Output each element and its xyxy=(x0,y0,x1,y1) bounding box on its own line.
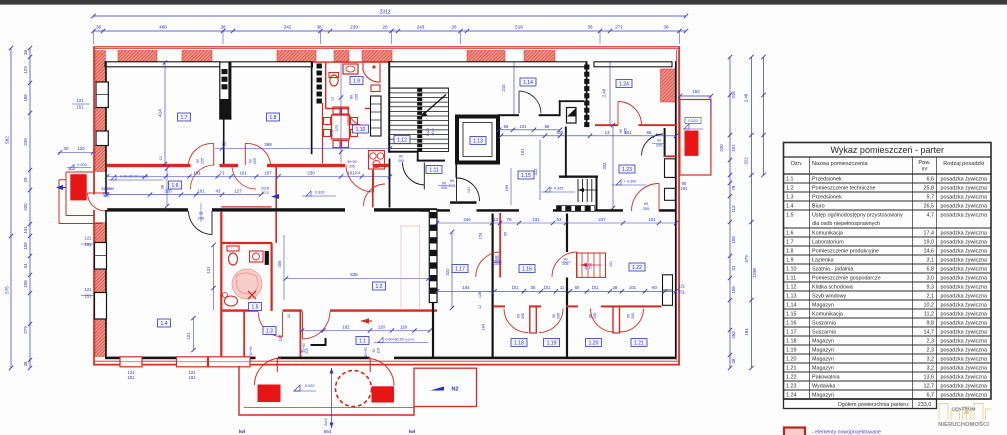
svg-text:1.12: 1.12 xyxy=(786,284,797,290)
svg-text:0.320: 0.320 xyxy=(688,119,698,123)
svg-text:322: 322 xyxy=(533,168,538,176)
svg-text:90: 90 xyxy=(589,314,593,318)
wall between 1.7 and 1.8 (black, windowed top) xyxy=(220,62,229,119)
svg-text:10,2: 10,2 xyxy=(924,302,935,308)
svg-text:101: 101 xyxy=(467,187,471,193)
bathroom 1.5 walls (red) xyxy=(221,242,272,244)
svg-text:322: 322 xyxy=(602,162,607,170)
svg-text:38: 38 xyxy=(663,25,669,30)
wall segment 1.11 (black) xyxy=(450,201,477,204)
svg-text:121: 121 xyxy=(678,284,686,289)
svg-text:43: 43 xyxy=(216,188,221,193)
maneuver cross 1.5 xyxy=(248,291,256,299)
door gap in left wall xyxy=(92,195,107,211)
window frame left 2 xyxy=(96,131,108,146)
svg-text:11,2: 11,2 xyxy=(924,311,934,317)
svg-text:1298: 1298 xyxy=(752,268,757,278)
black fixture 1.5 xyxy=(265,251,269,265)
svg-text:9,8: 9,8 xyxy=(927,320,935,326)
svg-text:184: 184 xyxy=(463,285,471,290)
svg-text:Klatka schodowa: Klatka schodowa xyxy=(812,284,853,290)
wall 1.3/1.1 (red) xyxy=(299,311,301,357)
hatched wall segments top xyxy=(118,51,157,62)
svg-text:272: 272 xyxy=(334,124,339,131)
room label 1.2 xyxy=(373,282,386,290)
svg-text:12: 12 xyxy=(478,305,482,309)
door arc corridor side B xyxy=(232,165,256,189)
svg-text:1.5: 1.5 xyxy=(786,212,794,218)
red lining wall 1.17 xyxy=(499,213,501,278)
svg-text:19,0: 19,0 xyxy=(924,239,935,245)
entry direction arrow (red) xyxy=(361,320,372,322)
legend: new elements (red box) xyxy=(784,428,805,435)
svg-text:1.16: 1.16 xyxy=(786,320,797,326)
svg-text:184: 184 xyxy=(481,323,486,330)
svg-text:1.21: 1.21 xyxy=(786,365,797,371)
top browser bar xyxy=(0,0,1007,5)
svg-text:379: 379 xyxy=(744,255,749,263)
svg-text:90: 90 xyxy=(517,314,521,318)
stairwell wall bottom (black) xyxy=(388,151,418,153)
svg-text:38: 38 xyxy=(316,25,322,30)
svg-text:26: 26 xyxy=(451,25,457,30)
svg-text:lwl: lwl xyxy=(239,429,245,435)
svg-text:posadzka żywiczna: posadzka żywiczna xyxy=(941,383,987,389)
svg-text:Pomieszczenie gospodarcze: Pomieszczenie gospodarcze xyxy=(812,275,881,281)
door arc 1.5 (to 1.3) xyxy=(282,312,284,337)
entrance door arc left (in bottom wall) xyxy=(276,358,278,373)
svg-text:90: 90 xyxy=(627,314,631,318)
svg-text:CENTRUM: CENTRUM xyxy=(952,407,976,413)
svg-text:113: 113 xyxy=(731,205,736,213)
svg-text:Pomieszczenie produkcyjne: Pomieszczenie produkcyjne xyxy=(812,248,879,254)
svg-text:NIERUCHOMOŚCI: NIERUCHOMOŚCI xyxy=(938,421,989,428)
svg-text:101: 101 xyxy=(609,261,613,267)
window 3 in bottom wall (red) xyxy=(209,357,251,367)
svg-text:35: 35 xyxy=(531,285,536,290)
svg-text:101: 101 xyxy=(206,266,211,274)
svg-text:dla osób niepełnosprawnych: dla osób niepełnosprawnych xyxy=(812,221,880,227)
svg-text:26: 26 xyxy=(382,25,388,30)
svg-text:128: 128 xyxy=(478,292,482,298)
dims in 1.1 xyxy=(302,330,430,332)
svg-text:71: 71 xyxy=(220,170,225,175)
staircase direction line xyxy=(421,95,447,118)
svg-text:205: 205 xyxy=(593,313,597,319)
svg-text:1.15: 1.15 xyxy=(786,311,797,317)
bottom wall (black) xyxy=(105,357,256,360)
svg-text:30+90: 30+90 xyxy=(104,187,114,191)
svg-text:2,1: 2,1 xyxy=(927,293,935,299)
svg-text:posadzka żywiczna: posadzka żywiczna xyxy=(941,356,987,362)
staircase 1.12 treads xyxy=(390,87,449,89)
window 2 in bottom wall (red) xyxy=(177,357,208,367)
svg-text:101: 101 xyxy=(520,124,528,129)
level 0.326 xyxy=(306,191,311,196)
dims above 1.14 xyxy=(499,129,560,131)
svg-text:13: 13 xyxy=(605,130,610,135)
corridor dims row 2 xyxy=(107,194,261,196)
svg-text:91: 91 xyxy=(731,265,736,270)
door arc right entry (black) xyxy=(642,134,664,156)
svg-text:1.19: 1.19 xyxy=(547,341,557,347)
svg-text:326: 326 xyxy=(164,188,172,193)
svg-text:196: 196 xyxy=(504,184,509,191)
svg-text:220: 220 xyxy=(23,203,28,211)
svg-text:1.22: 1.22 xyxy=(632,265,642,271)
hatched wall segments left (vertical) xyxy=(95,51,106,83)
svg-text:30+90: 30+90 xyxy=(249,346,253,356)
svg-text:0.00+60.20 n.p.m.: 0.00+60.20 n.p.m. xyxy=(386,338,415,342)
svg-text:118: 118 xyxy=(400,324,407,329)
svg-text:38: 38 xyxy=(220,25,226,30)
bathroom 1.9 bottom wall (red) xyxy=(326,108,348,110)
door arc room 1.7 xyxy=(188,143,214,165)
svg-text:205: 205 xyxy=(349,165,355,169)
shower 1.9 corner xyxy=(363,63,380,82)
room label 1.10 xyxy=(353,125,369,133)
washbasin 1.9 xyxy=(343,64,358,74)
svg-text:Magazyn: Magazyn xyxy=(812,356,834,362)
svg-text:0.020: 0.020 xyxy=(305,384,315,388)
level label corridor xyxy=(111,175,116,180)
outer wall right (red) xyxy=(678,47,680,366)
window 1 in bottom wall (red) xyxy=(120,357,142,367)
room label 1.22 xyxy=(629,263,645,271)
door arc 1.24 xyxy=(618,102,642,126)
wall right of 1.8 (black) xyxy=(311,61,313,154)
vent shaft symbol xyxy=(567,108,577,124)
svg-text:157: 157 xyxy=(278,334,283,342)
svg-text:1.8: 1.8 xyxy=(270,115,277,121)
windowed wall squares right of 1.8 xyxy=(317,64,322,69)
room label 1.18 xyxy=(511,339,527,347)
svg-text:30: 30 xyxy=(64,146,69,151)
svg-text:posadzka żywiczna: posadzka żywiczna xyxy=(941,293,987,299)
svg-text:205: 205 xyxy=(643,206,650,211)
svg-text:posadzka żywiczna: posadzka żywiczna xyxy=(941,275,987,281)
wall top of 1.1/1.3 (red) xyxy=(221,309,258,311)
svg-text:318: 318 xyxy=(731,91,736,99)
svg-text:Szyb windowy: Szyb windowy xyxy=(812,293,846,299)
svg-text:101: 101 xyxy=(355,171,361,175)
svg-text:posadzka żywiczna: posadzka żywiczna xyxy=(941,302,987,308)
svg-text:90: 90 xyxy=(300,349,304,353)
room label 1.13 xyxy=(470,137,486,145)
svg-text:posadzka żywiczna: posadzka żywiczna xyxy=(941,374,987,380)
svg-text:1.9: 1.9 xyxy=(353,79,360,85)
svg-text:26,5: 26,5 xyxy=(924,203,935,209)
svg-text:131: 131 xyxy=(532,217,540,222)
svg-text:posadzka żywiczna: posadzka żywiczna xyxy=(941,365,987,371)
svg-text:6,7: 6,7 xyxy=(927,392,935,398)
door arc corridor side A xyxy=(191,165,215,189)
wall left inner face (black) xyxy=(105,61,107,357)
wall below 1.24 (red) xyxy=(595,124,618,126)
walls of small storerooms (red horizontal) xyxy=(494,305,505,307)
dim labels 1.2 vertical xyxy=(451,232,453,308)
ramp slope symbol (blue) xyxy=(430,387,444,391)
dim 322 vertical xyxy=(539,140,541,200)
svg-text:Przedsionek: Przedsionek xyxy=(812,194,842,200)
svg-text:121: 121 xyxy=(85,287,93,292)
svg-text:120: 120 xyxy=(378,324,386,329)
svg-text:posadzka żywiczna: posadzka żywiczna xyxy=(941,248,987,254)
wall top of bathroom (red) xyxy=(313,61,390,62)
vestibule revolving door (dashed red circle) xyxy=(336,371,372,407)
svg-text:101: 101 xyxy=(592,285,600,290)
svg-text:80: 80 xyxy=(350,95,354,99)
small sink right wall xyxy=(371,85,380,92)
washbasin square 1.5 xyxy=(250,251,264,262)
svg-text:161: 161 xyxy=(681,186,689,191)
svg-text:1.13: 1.13 xyxy=(786,293,797,299)
wall between 1.14 and 1.24 (black) xyxy=(586,61,588,126)
svg-text:25.0: 25.0 xyxy=(589,263,593,270)
svg-text:414: 414 xyxy=(158,109,163,117)
svg-text:3,2: 3,2 xyxy=(927,365,935,371)
door arc left entrance xyxy=(88,193,106,211)
level label 0.003 xyxy=(69,165,74,170)
svg-text:12,7: 12,7 xyxy=(924,383,935,389)
svg-text:182: 182 xyxy=(342,324,350,329)
svg-text:30.3: 30.3 xyxy=(261,191,268,195)
svg-text:1.23: 1.23 xyxy=(786,383,797,389)
svg-text:53: 53 xyxy=(557,217,562,222)
svg-text:1.7: 1.7 xyxy=(786,239,794,245)
svg-text:2,3: 2,3 xyxy=(927,347,935,353)
svg-text:posadzka żywiczna: posadzka żywiczna xyxy=(941,329,987,335)
svg-text:posadzka żywiczna: posadzka żywiczna xyxy=(941,347,987,353)
svg-text:17,4: 17,4 xyxy=(924,230,935,236)
svg-text:Pow.: Pow. xyxy=(918,160,931,166)
svg-text:233,0: 233,0 xyxy=(918,402,932,408)
door arc 1.14 (black) xyxy=(519,91,541,114)
svg-text:205: 205 xyxy=(556,130,564,135)
svg-text:237: 237 xyxy=(598,217,606,222)
svg-text:1.24: 1.24 xyxy=(786,392,797,398)
door arc room 1.2 entry xyxy=(346,165,374,193)
wall 1.1/1.17 lower (black) xyxy=(432,303,434,358)
svg-text:Szatnia - jadalnia: Szatnia - jadalnia xyxy=(812,266,853,272)
svg-text:1.24: 1.24 xyxy=(619,82,629,88)
svg-text:posadzka żywiczna: posadzka żywiczna xyxy=(941,176,987,182)
svg-text:188: 188 xyxy=(23,94,28,102)
washer unit 1.10 (red) xyxy=(369,151,385,170)
svg-text:406: 406 xyxy=(277,260,282,268)
svg-text:1.11: 1.11 xyxy=(429,168,439,174)
svg-text:Magazyn: Magazyn xyxy=(812,338,834,344)
svg-text:1.23: 1.23 xyxy=(622,167,632,173)
svg-text:101: 101 xyxy=(239,170,247,175)
svg-text:1.17: 1.17 xyxy=(455,267,465,273)
svg-text:+ 0.325: + 0.325 xyxy=(551,187,564,191)
svg-text:Wydawka: Wydawka xyxy=(812,383,835,389)
svg-text:29: 29 xyxy=(23,177,28,182)
svg-text:322: 322 xyxy=(445,268,450,276)
door arc stairwell lobby (black) xyxy=(403,163,425,186)
door arc 1.1 xyxy=(303,312,331,340)
svg-text:78: 78 xyxy=(731,185,736,190)
door arcs small storerooms xyxy=(504,309,528,333)
svg-text:181: 181 xyxy=(189,375,197,380)
left porch outline inner (red) xyxy=(65,172,67,216)
svg-text:205: 205 xyxy=(201,158,205,164)
svg-text:38: 38 xyxy=(23,50,28,55)
wall top of rooms (black band) xyxy=(105,62,221,67)
svg-text:1.1: 1.1 xyxy=(359,339,366,345)
window frame right 1 xyxy=(665,159,676,178)
svg-text:+ 0.300: + 0.300 xyxy=(624,180,637,184)
wall 1.10 left (red) xyxy=(322,103,324,164)
svg-text:205: 205 xyxy=(253,158,257,164)
right porch outline (red) xyxy=(680,100,711,176)
svg-text:Nazwa pomieszczenia: Nazwa pomieszczenia xyxy=(812,161,869,167)
svg-text:1.1: 1.1 xyxy=(786,176,794,182)
svg-text:322: 322 xyxy=(744,157,749,165)
svg-text:582: 582 xyxy=(5,136,10,144)
room label 1.24 xyxy=(616,80,632,88)
svg-text:1.7: 1.7 xyxy=(181,115,188,121)
dining table 1.10 xyxy=(332,115,350,139)
corridor steps (black) xyxy=(577,179,579,202)
svg-text:m²: m² xyxy=(922,167,928,173)
corridor bottom wall (black) xyxy=(105,208,188,211)
door arc room 1.4 (black) xyxy=(189,211,213,235)
svg-text:Ustęp ogólnodostępny przystoso: Ustęp ogólnodostępny przystosowany xyxy=(812,212,903,218)
projection lines (light red) xyxy=(400,225,402,310)
svg-text:posadzka żywiczna: posadzka żywiczna xyxy=(941,212,987,218)
svg-text:101: 101 xyxy=(520,148,525,156)
svg-text:181: 181 xyxy=(128,375,136,380)
wall below 1.14 (black) xyxy=(498,114,519,116)
svg-text:90: 90 xyxy=(372,349,376,353)
wall corridor/stair zone (red) xyxy=(372,170,374,208)
svg-text:468: 468 xyxy=(159,25,167,30)
svg-text:205: 205 xyxy=(355,94,359,100)
svg-text:108: 108 xyxy=(731,236,736,244)
dim 2.48 vertical 1.24 xyxy=(609,61,611,125)
dims storerooms xyxy=(437,290,676,292)
grab-bars blob 1.5 xyxy=(232,269,262,299)
room schedule table xyxy=(784,143,992,400)
toilet 1.9 xyxy=(330,75,338,86)
svg-text:11: 11 xyxy=(560,285,565,290)
room label 1.12 xyxy=(394,136,410,144)
svg-text:12: 12 xyxy=(287,314,291,318)
svg-text:230: 230 xyxy=(307,170,315,175)
dim 635 in 1.2 xyxy=(286,278,429,280)
logo centrum nieruchomosci xyxy=(939,404,991,421)
door arc 1.16 (red) xyxy=(552,252,577,277)
dim line inside corridor xyxy=(166,169,168,207)
svg-text:2,3: 2,3 xyxy=(927,338,935,344)
svg-text:90: 90 xyxy=(552,314,556,318)
svg-text:9,3: 9,3 xyxy=(927,284,935,290)
svg-text:65: 65 xyxy=(647,130,652,135)
window frame left 1 xyxy=(96,82,108,108)
svg-text:1.21: 1.21 xyxy=(634,341,644,347)
wall 1.8 left (black) xyxy=(229,62,231,120)
room label 1.5 xyxy=(249,303,262,311)
dim 210 vertical 1.14 xyxy=(513,62,515,114)
svg-text:518: 518 xyxy=(515,25,523,30)
room label 1.16 xyxy=(519,265,535,273)
table total row xyxy=(784,399,937,409)
svg-text:14,7: 14,7 xyxy=(924,329,935,335)
room label 1.6 xyxy=(169,181,182,189)
room label 1.21 xyxy=(631,339,647,347)
dim 414 vertical in 1.7 xyxy=(164,63,166,165)
svg-text:151: 151 xyxy=(85,242,93,247)
vestibule inner wall (black) xyxy=(311,344,327,346)
svg-text:246: 246 xyxy=(463,217,471,222)
svg-text:101: 101 xyxy=(629,285,637,290)
outer wall top (red) xyxy=(93,46,680,47)
svg-text:101: 101 xyxy=(731,144,736,152)
svg-text:368: 368 xyxy=(264,142,272,147)
svg-text:60: 60 xyxy=(652,285,657,290)
level 0.300 xyxy=(616,180,621,185)
window frame right 3 xyxy=(663,275,673,306)
svg-text:151: 151 xyxy=(85,293,93,298)
svg-text:121: 121 xyxy=(85,236,93,241)
outer wall left (red) xyxy=(93,47,95,366)
svg-text:205: 205 xyxy=(656,144,662,148)
svg-text:38: 38 xyxy=(731,358,736,363)
right corridor dims xyxy=(437,222,676,224)
storeroom partition (red) 2 xyxy=(612,306,614,334)
corridor 1.15 wall horizontal (black) xyxy=(559,176,598,178)
svg-text:- elementy nowoprojektowane: - elementy nowoprojektowane xyxy=(812,430,881,435)
svg-text:1.12: 1.12 xyxy=(397,138,407,144)
svg-text:90+90: 90+90 xyxy=(347,160,356,164)
svg-text:342: 342 xyxy=(284,25,292,30)
svg-text:1.10: 1.10 xyxy=(356,127,366,133)
svg-text:1.22: 1.22 xyxy=(786,374,797,380)
svg-text:1.19: 1.19 xyxy=(786,347,797,353)
svg-text:220: 220 xyxy=(719,144,724,152)
svg-text:posadzka żywiczna: posadzka żywiczna xyxy=(941,257,987,263)
svg-text:1.9: 1.9 xyxy=(786,257,794,263)
level 0.325 right corridor xyxy=(545,187,550,192)
svg-text:posadzka żywiczna: posadzka żywiczna xyxy=(941,266,987,272)
dimension chain top (38/468/38/342/...) xyxy=(94,30,687,32)
toilet 1.5 xyxy=(229,253,238,265)
dim 368 horizontal xyxy=(215,148,390,150)
svg-text:posadzka żywiczna: posadzka żywiczna xyxy=(941,239,987,245)
svg-text:8x17: 8x17 xyxy=(584,262,588,269)
wall 1.17/1.16 (black) xyxy=(492,214,494,358)
room label 1.15 xyxy=(518,171,534,179)
svg-text:66: 66 xyxy=(545,124,550,129)
svg-text:Pomieszczenie techniczne: Pomieszczenie techniczne xyxy=(812,185,876,191)
svg-text:205: 205 xyxy=(631,313,635,319)
svg-text:14,6: 14,6 xyxy=(924,248,935,254)
room label 1.19 xyxy=(544,339,560,347)
svg-text:4,7: 4,7 xyxy=(927,212,935,218)
right porch step (red fill) xyxy=(685,131,699,156)
svg-text:1.14: 1.14 xyxy=(786,302,797,308)
dim line through 1.10 (blue) xyxy=(340,63,342,163)
svg-text:posadzka żywiczna: posadzka żywiczna xyxy=(941,320,987,326)
svg-text:66: 66 xyxy=(504,124,509,129)
svg-text:1.20: 1.20 xyxy=(786,356,797,362)
svg-text:38: 38 xyxy=(23,361,28,366)
elevator shaft inner mark xyxy=(463,123,492,157)
svg-text:131: 131 xyxy=(23,226,28,234)
svg-text:13,6: 13,6 xyxy=(924,374,935,380)
